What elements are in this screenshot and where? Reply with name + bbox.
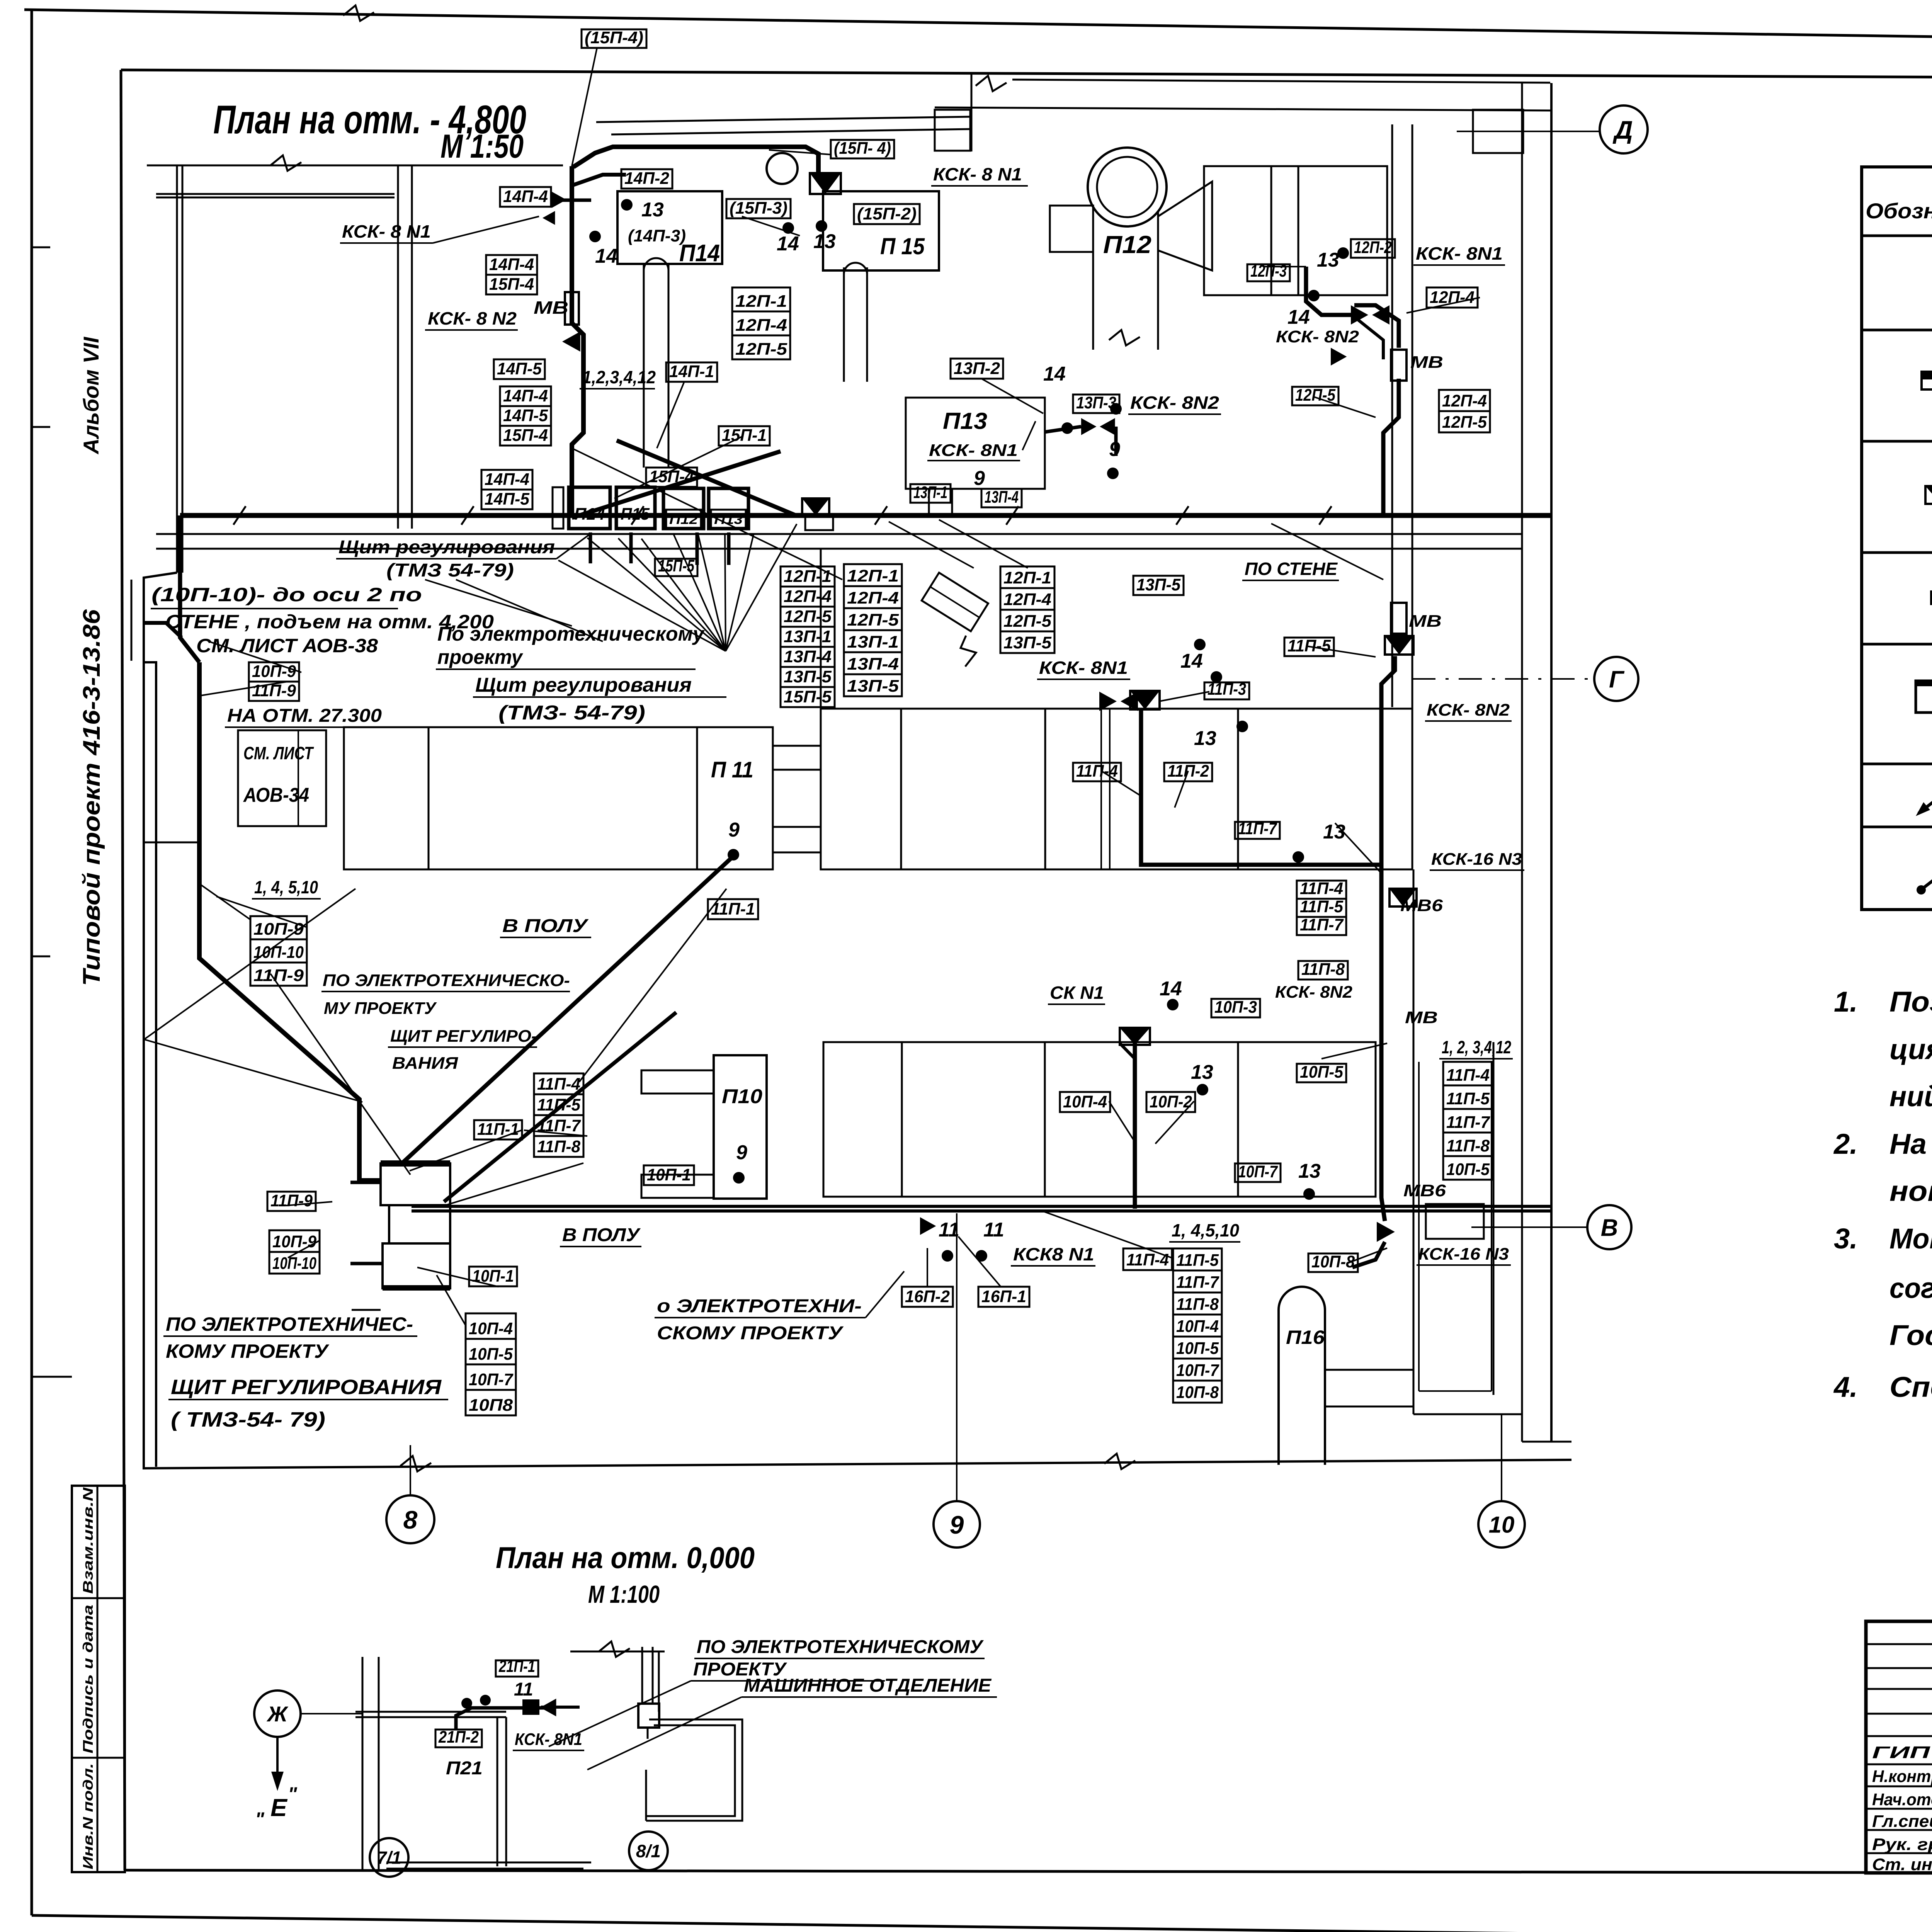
label box 10П-9 (250, 916, 307, 939)
svg-text:13П-5: 13П-5 (847, 677, 899, 696)
svg-text:14: 14 (1287, 306, 1310, 328)
box СМ.ЛИСТ АОВ-34 (238, 730, 326, 826)
svg-text:12П-4: 12П-4 (847, 588, 899, 607)
П12 fan unit (1088, 148, 1167, 226)
legend symbol trasse down (1918, 786, 1932, 813)
svg-text:11П-9: 11П-9 (253, 966, 304, 985)
svg-text:ний внешних проводок АОВ- 8: ний внешних проводок АОВ- 8 , АОВ- 28 , … (1889, 1080, 1932, 1112)
svg-text:12П-2: 12П-2 (1354, 238, 1392, 257)
label box 14П-2 (621, 169, 672, 189)
svg-text:П16: П16 (1286, 1327, 1325, 1348)
svg-text:КСК- 8 N1: КСК- 8 N1 (933, 164, 1022, 184)
label box 11П-8 (1443, 1133, 1493, 1156)
label box 10П-2 (1146, 1092, 1195, 1112)
label box 12П-4 (844, 586, 902, 608)
svg-text:11: 11 (983, 1219, 1004, 1241)
grid circle 7/1 (370, 1838, 408, 1877)
svg-text:Спецификация приведена н: Спецификация приведена на листе АОВ -34 (1889, 1371, 1932, 1403)
small valve (540, 1699, 556, 1716)
label box 10П-4 (1060, 1092, 1110, 1112)
label box 10П-5 (1173, 1337, 1222, 1359)
label box 11П-4 (534, 1073, 583, 1094)
diag trasse П11 to panel (402, 855, 735, 1163)
svg-text:Нач.отд.: Нач.отд. (1872, 1790, 1932, 1809)
svg-text:Щит регулирования: Щит регулирования (338, 537, 555, 558)
svg-text:11П-4: 11П-4 (1126, 1250, 1169, 1269)
fan units П14 П15 (569, 487, 610, 529)
svg-text:14П-4: 14П-4 (503, 187, 548, 206)
label box 14П-4 (486, 255, 537, 275)
label box 11П-8 (1173, 1293, 1222, 1315)
svg-text:КСК- 8N1: КСК- 8N1 (1039, 658, 1128, 678)
svg-text:9: 9 (1109, 438, 1120, 461)
svg-text:П13: П13 (943, 408, 987, 434)
П15 fan circle (767, 153, 798, 184)
grid circle Г (1594, 657, 1638, 701)
svg-text:13: 13 (1191, 1061, 1213, 1083)
12П riser trasse (1383, 379, 1399, 515)
label box 11П-9 (267, 1192, 316, 1211)
top building wall right step (1012, 80, 1550, 83)
label box 10П8 (466, 1390, 516, 1415)
fan unit legs (589, 532, 592, 563)
left upper trasse bend (144, 623, 182, 638)
СК vertical center (1133, 1028, 1137, 1209)
label box П12 под установкой (666, 510, 701, 529)
sidebar label Подпись и дата (80, 1605, 96, 1753)
svg-text:10П-3: 10П-3 (1214, 998, 1257, 1017)
svg-text:10П-5: 10П-5 (1446, 1160, 1490, 1179)
legend symbol junction box (1925, 486, 1932, 504)
label box 11П-4 (1443, 1062, 1493, 1085)
label box 10П-4 (466, 1313, 516, 1339)
svg-text:4.: 4. (1833, 1371, 1858, 1403)
upper-left wall stub to Д (1473, 110, 1523, 153)
svg-text:КСК- 8N1: КСК- 8N1 (1416, 243, 1503, 264)
svg-text:ПО ЭЛЕКТРОТЕХНИЧЕСКОМУ: ПО ЭЛЕКТРОТЕХНИЧЕСКОМУ (697, 1637, 984, 1657)
svg-text:14П-4: 14П-4 (489, 255, 534, 274)
КСК vertical lower right (1381, 865, 1385, 1221)
svg-text:13П-3: 13П-3 (1076, 393, 1116, 412)
duct pair mid band (1100, 709, 1102, 869)
svg-text:КСК- 8N2: КСК- 8N2 (1427, 701, 1510, 719)
wall break symbol (976, 76, 1007, 91)
П13 unit room (906, 398, 1045, 489)
label box 11П-7 (1443, 1109, 1493, 1133)
label box 12П-4 (732, 311, 790, 335)
label box 11П-9 (249, 682, 299, 701)
П10 unit (714, 1055, 767, 1199)
svg-text:КСК- 8N2: КСК- 8N2 (1275, 983, 1353, 1002)
label box 10П-9 (249, 662, 299, 682)
svg-text:10П-8: 10П-8 (1311, 1252, 1355, 1271)
label box 11П-5 (1297, 899, 1346, 917)
label box 12П-5 (1000, 610, 1054, 631)
corridor walls (156, 533, 1522, 535)
label box 12П-1 (732, 287, 790, 311)
svg-text:10П-2: 10П-2 (1150, 1092, 1192, 1111)
label box (15П-3) (726, 199, 791, 218)
label box 13П-5 (844, 674, 902, 696)
paper bottom border (32, 1915, 1932, 1932)
svg-text:13П-4: 13П-4 (847, 655, 899, 673)
svg-text:о ЭЛЕКТРОТЕХНИ-: о ЭЛЕКТРОТЕХНИ- (657, 1296, 862, 1316)
svg-text:П21: П21 (446, 1758, 483, 1779)
svg-text:11П-3: 11П-3 (1207, 680, 1246, 699)
svg-text:15П-1: 15П-1 (722, 426, 767, 445)
label box (15П-4) top margin (582, 29, 646, 48)
КСК envelope corridor (802, 498, 829, 515)
label box 12П-1 (781, 566, 835, 587)
svg-text:14: 14 (1043, 363, 1066, 385)
П14 duct neck (643, 264, 645, 468)
svg-text:14: 14 (777, 233, 799, 255)
svg-text:ПО СТЕНЕ: ПО СТЕНЕ (1245, 559, 1338, 579)
svg-text:11П-7: 11П-7 (1176, 1273, 1219, 1292)
lower horizontal trasse в полу (412, 1205, 1551, 1208)
small plan trasse (456, 1708, 506, 1730)
svg-text:12П-1: 12П-1 (1003, 568, 1051, 587)
label box 11П-5 (1284, 638, 1334, 656)
label box (15П-2) (854, 204, 920, 224)
svg-text:": " (255, 1808, 265, 1830)
legend symbol pull box (1930, 590, 1932, 605)
svg-text:14: 14 (595, 245, 617, 267)
svg-text:13П-2: 13П-2 (954, 359, 1000, 378)
label box 11П-1 (474, 1120, 522, 1139)
label box 14П-5 (481, 490, 532, 509)
svg-text:МВ6: МВ6 (1403, 1181, 1446, 1200)
svg-text:КСК- 8 N2: КСК- 8 N2 (428, 308, 517, 328)
mid-right envelope МВ (1385, 636, 1413, 655)
label box 11П-3 (1204, 682, 1249, 699)
label box 11П-7 и 13 (1235, 822, 1280, 839)
svg-text:(15П-4): (15П-4) (585, 28, 643, 47)
diag trasse left riser to panel (199, 662, 381, 1180)
svg-text:3.: 3. (1834, 1223, 1858, 1255)
svg-text:10П-7: 10П-7 (469, 1370, 514, 1389)
svg-text:Рук. гр.: Рук. гр. (1872, 1835, 1932, 1854)
small duct + box (641, 1647, 643, 1702)
svg-text:Инв.N подл.: Инв.N подл. (80, 1763, 96, 1869)
label box 15П-4 (646, 468, 697, 487)
svg-text:МВ: МВ (1410, 353, 1443, 372)
label box 11П-5 (1173, 1248, 1222, 1270)
svg-text:13: 13 (1323, 821, 1345, 843)
svg-text:13П-5: 13П-5 (1136, 575, 1180, 594)
label box 12П-1 (1000, 566, 1054, 588)
trasse cross diagonals (617, 440, 796, 515)
svg-text:КСК- 8 N1: КСК- 8 N1 (342, 221, 431, 241)
label box 12П-2 (1351, 239, 1395, 258)
svg-text:М 1:50: М 1:50 (440, 128, 524, 165)
label box 12П-3 правый (1247, 264, 1290, 281)
label box 12П-5 (1439, 411, 1490, 432)
sidebar label Инв.N подл. (80, 1763, 96, 1869)
svg-text:П15: П15 (621, 505, 650, 524)
svg-text:10П-5: 10П-5 (469, 1345, 513, 1364)
label box 11П-7 (1173, 1270, 1222, 1293)
label box 10П-1 второй (469, 1267, 517, 1286)
small plan walls (362, 1657, 364, 1870)
interior vertical wall x3655 (1391, 124, 1393, 707)
frame top (121, 70, 1932, 80)
label box 14П-5 (500, 406, 551, 426)
svg-text:КСК-16 N3: КСК-16 N3 (1431, 850, 1522, 869)
label box 13П-4 (781, 647, 835, 667)
text 11П-1 диагональ label (708, 899, 758, 919)
grid circle Д (1600, 105, 1648, 153)
svg-text:11: 11 (514, 1679, 533, 1700)
label box 10П-8 (1173, 1381, 1222, 1403)
svg-text:10П-10: 10П-10 (253, 943, 304, 962)
frame bottom (125, 1870, 1866, 1872)
svg-text:15П-5: 15П-5 (658, 556, 694, 575)
svg-text:АОВ-34: АОВ-34 (243, 784, 309, 806)
label box 15П-4 (486, 275, 537, 294)
svg-text:В ПОЛУ: В ПОЛУ (562, 1225, 641, 1245)
label box 10П-7 (466, 1364, 516, 1390)
svg-text:13П-1: 13П-1 (784, 627, 832, 646)
grid circle 8/1 (629, 1832, 668, 1870)
label box 10П-5 (1297, 1064, 1346, 1082)
svg-text:10П-5: 10П-5 (1176, 1339, 1219, 1358)
legend symbol control panel (1916, 681, 1932, 713)
svg-text:21П-2: 21П-2 (438, 1728, 479, 1747)
svg-text:МВ: МВ (534, 298, 568, 318)
label box 11П-9 (250, 963, 307, 986)
svg-text:2.: 2. (1833, 1128, 1858, 1160)
svg-text:КСК-16 N3: КСК-16 N3 (1418, 1245, 1509, 1264)
svg-text:13П-1: 13П-1 (847, 633, 899, 651)
svg-text:12П-1: 12П-1 (847, 566, 899, 585)
left outer wall upper (176, 165, 178, 573)
svg-text:13: 13 (813, 230, 836, 253)
label box 21П-1 (496, 1660, 538, 1677)
svg-text:16П-2: 16П-2 (905, 1287, 950, 1306)
svg-text:7/1: 7/1 (377, 1848, 401, 1868)
label box 11П-8 (1298, 961, 1348, 980)
label box 16П-2 (902, 1287, 953, 1307)
svg-text:П10: П10 (722, 1085, 762, 1108)
svg-text:(15П-3): (15П-3) (730, 199, 787, 218)
svg-text:СМ. ЛИСТ: СМ. ЛИСТ (243, 743, 314, 763)
svg-text:11П-1: 11П-1 (477, 1120, 519, 1139)
svg-text:11П-8: 11П-8 (1176, 1295, 1219, 1314)
grid circle В (1587, 1205, 1631, 1249)
label box 11П-4 (1297, 881, 1346, 899)
svg-text:( ТМЗ-54- 79): ( ТМЗ-54- 79) (171, 1408, 325, 1431)
svg-text:(15П- 4): (15П- 4) (834, 139, 891, 158)
svg-text:12П-3: 12П-3 (1250, 262, 1287, 281)
svg-text:10П-4: 10П-4 (1063, 1092, 1107, 1111)
mid top wall double (596, 117, 971, 122)
svg-text:ПО ЭЛЕКТРОТЕХНИЧЕС-: ПО ЭЛЕКТРОТЕХНИЧЕС- (166, 1313, 413, 1335)
label box 14П-5 (494, 359, 545, 379)
svg-text:12П-5: 12П-5 (1003, 612, 1052, 631)
label box 10П-5 (466, 1339, 516, 1364)
svg-text:М 1:100: М 1:100 (588, 1580, 660, 1608)
label box (15П-4) второй (831, 140, 894, 158)
svg-text:КСК- 8N2: КСК- 8N2 (1276, 327, 1359, 346)
svg-text:11П-4: 11П-4 (1446, 1066, 1490, 1085)
lower room band (823, 1042, 1376, 1197)
label box 13П-3 (1073, 395, 1119, 413)
svg-text:11П-8: 11П-8 (537, 1137, 581, 1156)
bottom building wall (143, 1460, 1571, 1468)
КСК-16N3 triangle (1377, 1222, 1395, 1242)
label box 14П-4 (481, 470, 532, 490)
12П upper trasse (1306, 267, 1354, 315)
label box 13П-5 (1000, 631, 1054, 653)
П13 valve cluster (1081, 418, 1097, 435)
legend symbol trasse up (1922, 861, 1932, 889)
svg-text:11П-4: 11П-4 (537, 1075, 580, 1094)
label box 11П-7 (534, 1115, 583, 1136)
svg-text:16П-1: 16П-1 (981, 1287, 1026, 1306)
label box 10П-3 (1211, 999, 1260, 1017)
svg-text:Позиции приборов и аппара: Позиции приборов и аппаратуры , А также … (1889, 986, 1932, 1018)
П11 stub rects (773, 746, 821, 770)
label box 13П-5 одиночный (1133, 576, 1184, 595)
label box 12П-4 (1000, 588, 1054, 610)
lower-right trasse elbow (1352, 1242, 1385, 1267)
svg-text:КОМУ ПРОЕКТУ: КОМУ ПРОЕКТУ (166, 1340, 330, 1362)
label box 13П-1 (910, 484, 951, 503)
svg-text:Подпись и дата: Подпись и дата (80, 1605, 96, 1753)
label box 14П-1 (666, 362, 717, 382)
right shaft walls (1413, 869, 1415, 1414)
label box 12П-5 (844, 608, 902, 630)
valve 11П-3 (1099, 692, 1117, 711)
leader lines fan (587, 538, 726, 651)
label box 13П-1 (781, 627, 835, 647)
label box 11П-4 (1073, 763, 1121, 781)
svg-text:НА ОТМ. 27.300: НА ОТМ. 27.300 (227, 706, 382, 726)
svg-text:12П-1: 12П-1 (735, 292, 787, 311)
svg-text:8/1: 8/1 (636, 1841, 661, 1861)
11П trasse mid right (1141, 709, 1381, 865)
МВ device П14 (565, 292, 579, 325)
svg-text:10П8: 10П8 (469, 1396, 513, 1415)
svg-text:12П-5: 12П-5 (735, 340, 787, 359)
svg-text:МВ6: МВ6 (1400, 896, 1443, 915)
svg-text:Н.контр.: Н.контр. (1872, 1767, 1932, 1786)
svg-text:14П-4: 14П-4 (503, 386, 548, 405)
svg-text:14П-5: 14П-5 (485, 490, 530, 509)
label box 10П-7 (1235, 1163, 1281, 1182)
left wall jog (144, 573, 177, 1467)
svg-text:Ст. инж: Ст. инж (1872, 1855, 1932, 1874)
label box 13П-5 (781, 667, 835, 687)
П15 unit room (823, 191, 939, 270)
label box 13П-4 (844, 652, 902, 674)
МВ upper-left second (1331, 348, 1347, 366)
svg-text:КСК- 8N2: КСК- 8N2 (1130, 393, 1219, 413)
margin tick marks (32, 247, 50, 248)
svg-text:10П-10: 10П-10 (272, 1254, 316, 1273)
svg-text:11П-5: 11П-5 (1446, 1089, 1490, 1108)
svg-text:согласно строительным норма: согласно строительным нормам и правилам … (1889, 1272, 1932, 1304)
svg-text:13П-5: 13П-5 (1003, 633, 1052, 652)
svg-text:П12: П12 (1103, 231, 1151, 259)
svg-text:ЩИТ РЕГУЛИРОВАНИЯ: ЩИТ РЕГУЛИРОВАНИЯ (171, 1376, 442, 1399)
svg-text:СКОМУ ПРОЕКТУ: СКОМУ ПРОЕКТУ (657, 1323, 844, 1344)
svg-text:КСК- 8N1: КСК- 8N1 (929, 441, 1018, 460)
label box 12П-4 (1439, 390, 1490, 411)
svg-text:(ТМЗ- 54-79): (ТМЗ- 54-79) (498, 702, 645, 724)
label box 11П-5 (534, 1094, 583, 1115)
label box 15П-1 (719, 426, 770, 446)
interior vertical wall x1030 (397, 165, 399, 529)
frame left (121, 70, 125, 1870)
svg-text:План на отм. 0,000: План на отм. 0,000 (496, 1541, 755, 1575)
svg-text:10П-9: 10П-9 (252, 662, 296, 681)
svg-text:13П-4: 13П-4 (985, 488, 1019, 507)
svg-text:11П-5: 11П-5 (1300, 897, 1344, 916)
КСК-8N1 valve П14 (552, 192, 566, 208)
svg-text:11П-8: 11П-8 (1446, 1136, 1490, 1155)
svg-text:П 11: П 11 (711, 757, 753, 782)
svg-text:(14П-3): (14П-3) (628, 226, 686, 245)
grid circle 9 (956, 1213, 957, 1501)
label box 12П-5 (1292, 387, 1338, 405)
svg-text:13: 13 (641, 199, 664, 221)
КСК 11П-3 envelope (1130, 691, 1160, 709)
svg-text:14П-1: 14П-1 (669, 362, 714, 381)
svg-text:В ПОЛУ: В ПОЛУ (502, 916, 589, 936)
svg-text:Монтаж приборов и средств: Монтаж приборов и средств автоматизации … (1889, 1223, 1932, 1255)
КСК envelope П15 top (810, 173, 841, 194)
vertical trasse П14 riser (572, 166, 583, 515)
svg-text:10П-7: 10П-7 (1238, 1162, 1278, 1181)
svg-text:11П-7: 11П-7 (1300, 915, 1344, 934)
diag trasse в полу to panel (444, 1012, 676, 1202)
paper top border (24, 10, 1932, 48)
svg-text:Ж: Ж (266, 1702, 289, 1726)
svg-text:12П-4: 12П-4 (1442, 391, 1487, 410)
label box 15П-4 (500, 426, 551, 446)
grid circle 8 (410, 1445, 411, 1495)
svg-text:Гл.спец.: Гл.спец. (1872, 1812, 1932, 1831)
svg-text:(15П-2): (15П-2) (857, 204, 917, 223)
svg-text:12П-5: 12П-5 (784, 607, 832, 626)
label box 11П-2 (1164, 763, 1212, 781)
П15 duct neck (843, 267, 845, 382)
svg-text:13П-4: 13П-4 (784, 647, 832, 666)
svg-text:14П-4: 14П-4 (485, 470, 529, 489)
svg-text:11П-7: 11П-7 (1238, 819, 1277, 838)
svg-text:10П-4: 10П-4 (1176, 1317, 1219, 1336)
label box 10П-9 (269, 1230, 320, 1252)
rotated flag symbol (922, 573, 988, 631)
svg-text:13: 13 (1194, 727, 1216, 750)
label box 10П-8 (1308, 1253, 1358, 1272)
svg-text:(ТМЗ 54-79): (ТМЗ 54-79) (386, 560, 514, 581)
label box 10П-4 (1173, 1315, 1222, 1337)
label box 13П-1 (844, 630, 902, 652)
svg-text:9: 9 (728, 819, 740, 841)
svg-text:Е: Е (270, 1794, 288, 1821)
svg-text:15П-4: 15П-4 (503, 426, 548, 445)
label box 10П-10 (250, 939, 307, 963)
svg-text:12П-4: 12П-4 (784, 587, 832, 606)
svg-text:1, 2, 3,4,12: 1, 2, 3,4,12 (1442, 1037, 1511, 1057)
mid room band (821, 709, 1412, 869)
svg-text:9: 9 (950, 1510, 964, 1539)
svg-text:11П-1: 11П-1 (711, 900, 755, 918)
svg-text:(10П-10)- до оси 2 по: (10П-10)- до оси 2 по (151, 584, 422, 605)
